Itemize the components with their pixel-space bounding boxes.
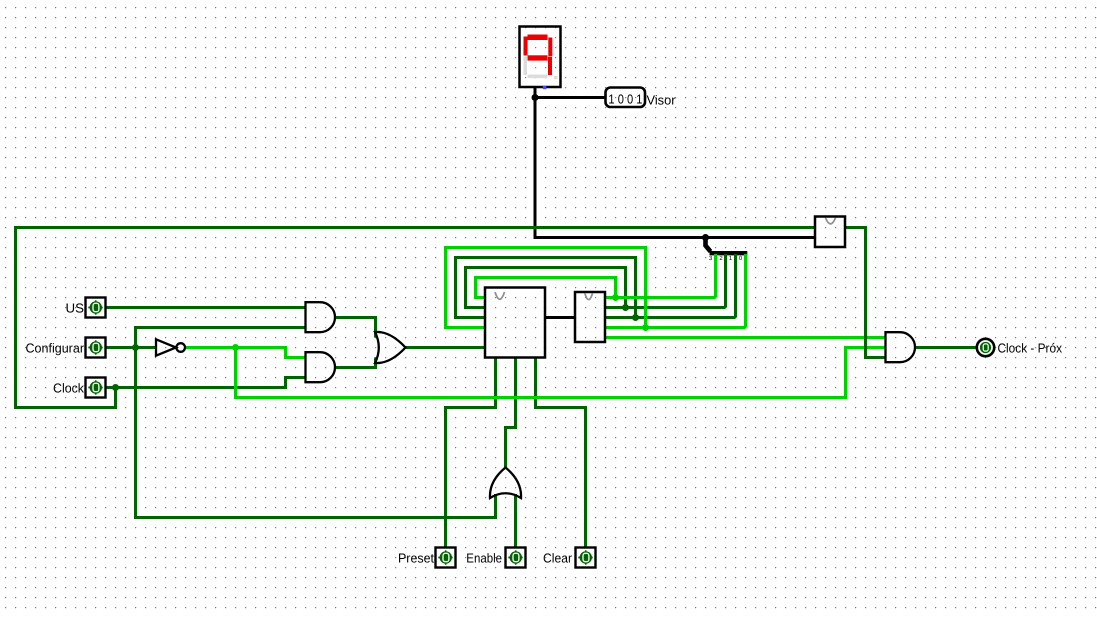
svg-text:US: US [66, 300, 85, 315]
svg-text:Clock: Clock [53, 380, 84, 395]
svg-text:Clock - Próx: Clock - Próx [998, 340, 1063, 355]
svg-text:Preset: Preset [398, 550, 434, 565]
svg-text:Configurar: Configurar [26, 340, 85, 355]
svg-text:Enable: Enable [466, 550, 502, 565]
svg-text:Clear: Clear [543, 550, 573, 565]
svg-text:1 0 0 1: 1 0 0 1 [608, 92, 642, 107]
svg-text:Visor: Visor [647, 92, 677, 107]
